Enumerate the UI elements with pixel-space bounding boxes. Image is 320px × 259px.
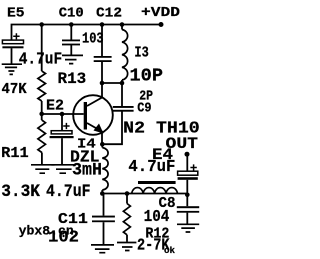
svg-text:3.3K: 3.3K: [1, 182, 40, 202]
svg-text:I3: I3: [134, 45, 148, 62]
svg-text:ybx8.cn: ybx8.cn: [19, 224, 74, 239]
svg-text:ok: ok: [164, 246, 176, 256]
svg-text:E2: E2: [46, 99, 64, 115]
svg-text:C10: C10: [59, 5, 84, 21]
svg-text:C12: C12: [96, 5, 122, 21]
svg-text:10P: 10P: [130, 66, 164, 87]
svg-text:R13: R13: [58, 70, 87, 88]
svg-text:R11: R11: [1, 145, 29, 162]
svg-text:+VDD: +VDD: [141, 5, 180, 21]
svg-text:C9: C9: [137, 100, 151, 116]
svg-text:103: 103: [82, 31, 104, 47]
svg-text:4.7uF: 4.7uF: [19, 51, 63, 70]
svg-text:4.7uF: 4.7uF: [46, 182, 91, 202]
svg-text:4.7uF: 4.7uF: [128, 158, 175, 177]
svg-text:E5: E5: [7, 5, 25, 21]
svg-text:3mH: 3mH: [72, 161, 102, 181]
svg-text:104: 104: [144, 207, 170, 226]
svg-text:47K: 47K: [2, 82, 27, 98]
